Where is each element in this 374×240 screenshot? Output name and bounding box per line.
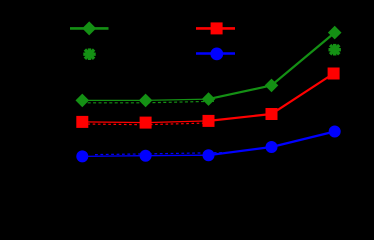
series A (green) companion dashed line: [82, 101, 214, 103]
legend marker circle series D (blue): [210, 48, 223, 61]
legend sample line series B (red): [196, 27, 235, 30]
series A (green) main line rising part: [209, 33, 335, 100]
series D (blue) companion dashed line: [95, 152, 235, 154]
series A data point diamond 5: [328, 26, 342, 40]
series B (red) main line flat part: [82, 121, 208, 123]
series A (green) main line flat part: [82, 99, 208, 100]
series B (red) companion dashed line: [82, 123, 208, 125]
series D data point circle 5: [329, 126, 341, 138]
series B data point square 4: [266, 108, 278, 120]
series B data point square 2: [140, 117, 152, 129]
legend marker diamond series A (green): [82, 21, 96, 35]
series D data point circle 3: [203, 149, 215, 161]
series A data point diamond 1: [76, 94, 90, 108]
series A data point diamond 2: [139, 94, 153, 108]
series D (blue) main line flat part: [82, 155, 208, 156]
series D (blue) main line rising part: [209, 132, 335, 156]
legend sample line series D (blue): [196, 52, 235, 55]
series D data point circle 2: [140, 150, 152, 162]
series B data point square 1: [76, 116, 88, 128]
legend sample line series A (green): [70, 27, 109, 30]
legend marker square series B (red): [211, 22, 223, 34]
series B (red) main line rising part: [209, 74, 334, 121]
series B data point square 3: [203, 115, 215, 127]
legend marker asterisk series C (green, points only): [83, 48, 95, 60]
series A data point diamond 3: [202, 92, 216, 106]
series D data point circle 4: [266, 141, 278, 153]
series D data point circle 1: [76, 150, 88, 162]
series A data point diamond 4: [265, 79, 279, 93]
series B data point square 5: [328, 68, 340, 80]
series C (green asterisk) lone data point: [329, 44, 341, 56]
